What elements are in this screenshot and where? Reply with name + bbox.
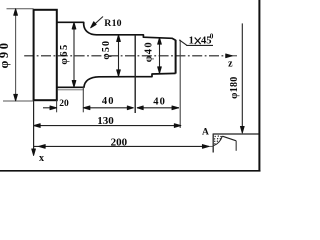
svg-text:φ90: φ90: [0, 40, 11, 68]
svg-text:0: 0: [210, 33, 214, 41]
svg-text:φ50: φ50: [101, 40, 112, 60]
svg-text:40: 40: [102, 96, 115, 107]
svg-text:φ180: φ180: [229, 76, 240, 98]
svg-text:1: 1: [189, 36, 194, 47]
svg-text:40: 40: [153, 97, 166, 108]
svg-text:130: 130: [97, 115, 114, 127]
svg-text:φ40: φ40: [144, 41, 155, 62]
svg-text:A: A: [202, 128, 209, 138]
svg-text:z: z: [228, 59, 233, 70]
svg-text:20: 20: [59, 99, 69, 109]
svg-text:200: 200: [111, 136, 128, 148]
svg-text:R10: R10: [104, 18, 121, 29]
svg-text:x: x: [39, 153, 44, 164]
svg-text:φ65: φ65: [59, 43, 70, 64]
